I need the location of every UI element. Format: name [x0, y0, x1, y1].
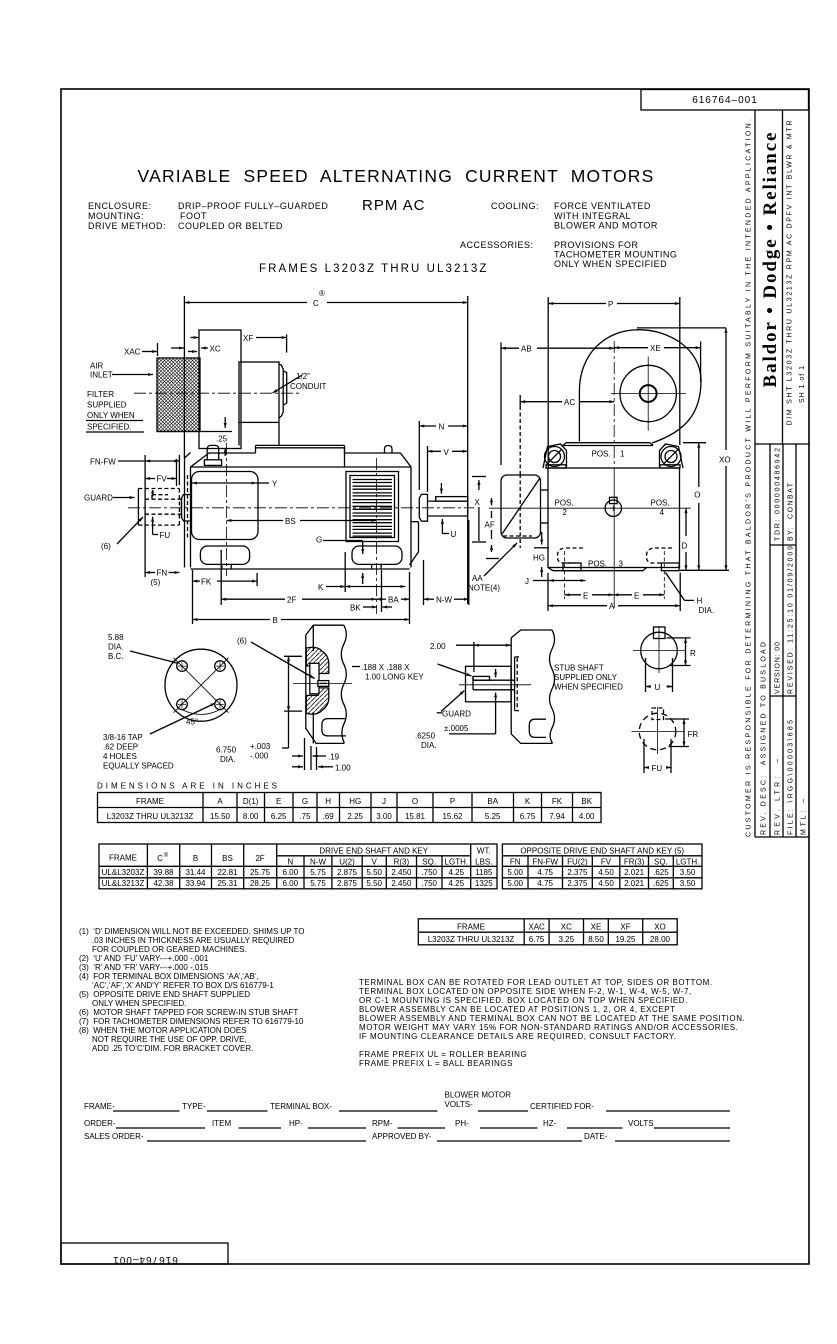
svg-text:2.375: 2.375 [567, 868, 588, 877]
svg-text:FRAME: FRAME [136, 797, 164, 806]
svg-text:FU(2): FU(2) [567, 858, 588, 867]
svg-text:FU: FU [160, 531, 171, 540]
svg-text:.75: .75 [299, 812, 311, 821]
svg-text:FR(3): FR(3) [624, 858, 645, 867]
svg-text:TDR: 000000486942: TDR: 000000486942 [775, 448, 782, 541]
svg-text:TERMINAL BOX CAN BE ROTATED FO: TERMINAL BOX CAN BE ROTATED FOR LEAD OUT… [359, 978, 713, 987]
svg-text:E: E [634, 591, 639, 600]
svg-text:DIA.: DIA. [699, 606, 715, 615]
svg-text:SUPPLIED ONLY: SUPPLIED ONLY [554, 673, 618, 682]
svg-text:FV: FV [601, 858, 612, 867]
svg-text:ONLY WHEN SPECIFIED: ONLY WHEN SPECIFIED [554, 259, 667, 269]
svg-text:BLOWER ASSEMBLY CAN BE LOCATED: BLOWER ASSEMBLY CAN BE LOCATED AT POSITI… [359, 1005, 676, 1014]
stub shaft in guard [473, 679, 514, 681]
bearing cap [419, 494, 427, 521]
svg-text:(8) WHEN THE MOTOR APPLICATIO: (8) WHEN THE MOTOR APPLICATION DOES [79, 1026, 247, 1035]
HG dimension [541, 532, 543, 545]
svg-text:TYPE-: TYPE- [182, 1102, 206, 1111]
svg-text:FRAME: FRAME [109, 854, 137, 863]
conduit centerline [134, 392, 300, 394]
svg-text:2F: 2F [287, 596, 296, 605]
U label [441, 519, 443, 527]
notes left column [79, 927, 305, 1053]
svg-text:P: P [450, 797, 455, 806]
svg-text:.750: .750 [421, 868, 437, 877]
svg-text:LBS.: LBS. [475, 858, 492, 867]
svg-text:5.25: 5.25 [485, 812, 501, 821]
lower hatched hub [306, 688, 329, 714]
svg-text:BLOWER ASSEMBLY AND TERMINAL B: BLOWER ASSEMBLY AND TERMINAL BOX CAN NOT… [359, 1014, 745, 1023]
svg-text:XAC: XAC [528, 923, 545, 932]
1.00 dimension [316, 747, 318, 770]
svg-text:OPPOSITE DRIVE END SHAFT AND K: OPPOSITE DRIVE END SHAFT AND KEY (5) [520, 847, 684, 856]
svg-text:AC: AC [564, 398, 575, 407]
Y dimension [192, 482, 257, 484]
svg-text:U: U [451, 530, 457, 539]
feet [200, 546, 249, 564]
svg-text:31.44: 31.44 [185, 868, 206, 877]
key arrow [440, 483, 442, 494]
svg-text:FILTER: FILTER [87, 390, 114, 399]
svg-text:C: C [157, 854, 163, 863]
svg-text:WT.: WT. [477, 847, 491, 856]
svg-text:FRAME PREFIX L = BALL BEARINGS: FRAME PREFIX L = BALL BEARINGS [359, 1059, 513, 1068]
svg-text:XAC: XAC [124, 348, 141, 357]
svg-text:4.25: 4.25 [449, 868, 465, 877]
svg-text:‘AC’,‘AF’,‘X’ AND‘Y’ REFER TO: ‘AC’,‘AF’,‘X’ AND‘Y’ REFER TO BOX D/S 61… [92, 981, 274, 990]
svg-text:3.50: 3.50 [680, 879, 696, 888]
bearing bore [310, 663, 319, 694]
svg-text:2.021: 2.021 [624, 868, 645, 877]
svg-text:(5): (5) [151, 578, 161, 587]
svg-text:33.94: 33.94 [185, 879, 206, 888]
svg-text:EQUALLY SPACED: EQUALLY SPACED [103, 762, 174, 771]
XE dimension [614, 347, 648, 349]
svg-text:4.50: 4.50 [598, 868, 614, 877]
table 2 left: drive end [99, 844, 497, 889]
BS dimension [227, 520, 284, 522]
svg-text:6.00: 6.00 [283, 879, 299, 888]
svg-text:DRIP–PROOF FULLY–GUARDED: DRIP–PROOF FULLY–GUARDED [178, 201, 328, 211]
svg-text:SUPPLIED: SUPPLIED [87, 401, 127, 410]
svg-text:POS.: POS. [588, 560, 607, 569]
svg-text:R: R [690, 649, 696, 658]
D dimension [685, 508, 687, 536]
detail centerline [293, 682, 352, 684]
svg-text:.625: .625 [653, 868, 669, 877]
svg-text:AA: AA [472, 574, 483, 583]
svg-text:ONLY WHEN SPECIFIED.: ONLY WHEN SPECIFIED. [92, 999, 186, 1008]
svg-text:TACHOMETER MOUNTING: TACHOMETER MOUNTING [554, 250, 677, 260]
svg-text:FRAME PREFIX UL = ROLLER BEARI: FRAME PREFIX UL = ROLLER BEARING [359, 1050, 527, 1059]
AF dimension [491, 498, 493, 506]
svg-text:G: G [302, 797, 308, 806]
svg-text:BK: BK [350, 604, 361, 613]
svg-text:SQ.: SQ. [422, 858, 436, 867]
svg-text:FU: FU [652, 764, 663, 773]
svg-text:N: N [439, 423, 445, 432]
svg-text:6.750: 6.750 [216, 746, 237, 755]
svg-text:IF MOUNTING CLEARANCE DETAILS: IF MOUNTING CLEARANCE DETAILS ARE REQUIR… [359, 1032, 677, 1041]
svg-text:B: B [273, 616, 278, 625]
svg-text:22.81: 22.81 [217, 868, 238, 877]
svg-text:.750: .750 [421, 879, 437, 888]
svg-text:FOR COUPLED OR GEARED MACHINES: FOR COUPLED OR GEARED MACHINES. [92, 945, 247, 954]
svg-text:L3203Z THRU UL3213Z: L3203Z THRU UL3213Z [428, 935, 515, 944]
svg-text:(1) ‘D’ DIMENSION WILL NOT BE: (1) ‘D’ DIMENSION WILL NOT BE EXCEEDED. … [79, 927, 305, 936]
opposite shaft end view (dashed) [639, 713, 676, 750]
svg-text:4.75: 4.75 [537, 879, 553, 888]
svg-text:XE: XE [650, 344, 661, 353]
svg-text:N-W: N-W [310, 858, 326, 867]
svg-text:.25: .25 [216, 435, 228, 444]
svg-text:3: 3 [619, 560, 624, 569]
svg-text:4: 4 [660, 508, 665, 517]
svg-text:HG: HG [349, 797, 361, 806]
svg-text:J: J [525, 577, 529, 586]
left lifting lug [543, 444, 567, 468]
svg-text:39.88: 39.88 [153, 868, 174, 877]
svg-text:(6) MOTOR SHAFT TAPPED FOR SC: (6) MOTOR SHAFT TAPPED FOR SCREW-IN STUB… [79, 1008, 298, 1017]
XC dimension [171, 347, 184, 349]
svg-text:.69: .69 [323, 812, 335, 821]
svg-text:5.00: 5.00 [507, 868, 523, 877]
svg-text:5.75: 5.75 [310, 868, 326, 877]
svg-text:XC: XC [561, 923, 572, 932]
motor body square [548, 468, 680, 568]
svg-text:J: J [382, 797, 386, 806]
svg-text:45°: 45° [186, 718, 198, 727]
svg-text:2.875: 2.875 [337, 879, 358, 888]
FV dimension [145, 478, 155, 480]
svg-text:(3) ‘R’ AND ‘FR’ VARY---+.000: (3) ‘R’ AND ‘FR’ VARY---+.000 -.015 [79, 963, 209, 972]
.6250 dim arrows [495, 669, 497, 677]
svg-text:BLOWER AND MOTOR: BLOWER AND MOTOR [554, 221, 658, 231]
table 2 right: opposite drive end [502, 844, 702, 889]
X dimension [478, 480, 480, 490]
bolt circle detail [165, 649, 237, 721]
svg-text:.625: .625 [653, 879, 669, 888]
terminal/conduit box [239, 362, 279, 422]
guard (dashed box) [137, 489, 139, 526]
svg-text:DIM SHT L3203Z THRU UL3213Z RP: DIM SHT L3203Z THRU UL3213Z RPM AC DPFV … [787, 121, 794, 426]
svg-text:2.00: 2.00 [430, 642, 446, 651]
svg-text:GUARD: GUARD [84, 494, 113, 503]
svg-text:RPM-: RPM- [372, 1119, 393, 1128]
GUARD label [437, 712, 442, 714]
svg-text:VOLTS-: VOLTS- [445, 1100, 474, 1109]
svg-text:B.C.: B.C. [108, 652, 124, 661]
placeholder groups [84, 289, 517, 625]
svg-text:2.450: 2.450 [391, 868, 412, 877]
svg-text:RPM AC: RPM AC [362, 197, 426, 214]
svg-text:19.25: 19.25 [615, 935, 636, 944]
svg-text:O: O [412, 797, 418, 806]
svg-text:AB: AB [521, 345, 532, 354]
feet dashed right [647, 548, 673, 563]
svg-text:CONDUIT: CONDUIT [290, 382, 327, 391]
svg-text:3.00: 3.00 [376, 812, 392, 821]
left bearing cap [182, 495, 191, 522]
2F dimension [221, 598, 285, 600]
svg-text:GUARD: GUARD [442, 710, 471, 719]
svg-text:WITH INTEGRAL: WITH INTEGRAL [554, 211, 631, 221]
svg-text:E: E [276, 797, 281, 806]
svg-text:28.00: 28.00 [650, 935, 671, 944]
svg-text:1.00: 1.00 [335, 763, 351, 772]
svg-text:HP-: HP- [289, 1119, 303, 1128]
left bracket face lines [184, 458, 186, 568]
drive end bracket lower lip [411, 521, 419, 523]
svg-text:5.00: 5.00 [507, 879, 523, 888]
svg-text:FN-FW: FN-FW [90, 458, 116, 467]
tachometer box [501, 475, 541, 538]
svg-text:4.50: 4.50 [598, 879, 614, 888]
svg-text:DIA.: DIA. [220, 755, 236, 764]
svg-text:42.38: 42.38 [153, 879, 174, 888]
svg-text:15.62: 15.62 [442, 812, 463, 821]
blower impeller circles [620, 365, 676, 421]
svg-text:HG: HG [533, 554, 545, 563]
svg-text:.03 INCHES IN THICKNESS ARE US: .03 INCHES IN THICKNESS ARE USUALLY REQU… [92, 936, 295, 945]
svg-text:2.021: 2.021 [624, 879, 645, 888]
svg-text:FORCE VENTILATED: FORCE VENTILATED [554, 201, 651, 211]
table 1: frame dimensions [98, 793, 602, 823]
air filter (crosshatched) [157, 358, 200, 432]
guard box [466, 666, 512, 702]
svg-text:BA: BA [388, 596, 399, 605]
svg-text:K: K [525, 797, 531, 806]
svg-text:FK: FK [552, 797, 563, 806]
FU arrows [152, 490, 154, 497]
svg-text:(6): (6) [237, 637, 247, 646]
svg-text:DATE-: DATE- [584, 1132, 608, 1141]
svg-text:6.00: 6.00 [283, 868, 299, 877]
svg-text:FR: FR [688, 730, 699, 739]
svg-text:POS.: POS. [592, 450, 611, 459]
svg-text:G: G [316, 536, 322, 545]
svg-text:COOLING:: COOLING: [491, 201, 539, 211]
shaft end section detail [306, 625, 344, 635]
svg-text:LGTH.: LGTH. [445, 858, 469, 867]
drawing border frame [61, 89, 809, 1264]
XO dimension [725, 328, 727, 450]
svg-text:A: A [609, 602, 615, 611]
svg-text:CERTIFIED FOR-: CERTIFIED FOR- [530, 1102, 594, 1111]
.19 dimension [304, 738, 306, 770]
6.750 DIA dimension [288, 656, 290, 711]
stub shaft detail bracket [511, 630, 552, 638]
A dimension [548, 605, 607, 607]
tach center dashed [519, 474, 521, 548]
svg-text:DIMENSIONS ARE IN INCHES: DIMENSIONS ARE IN INCHES [97, 782, 277, 791]
svg-text:U(2): U(2) [339, 858, 355, 867]
svg-text:V: V [372, 858, 378, 867]
shaft [428, 500, 468, 502]
svg-text:COUPLED OR BELTED: COUPLED OR BELTED [178, 221, 283, 231]
svg-text:XC: XC [210, 345, 221, 354]
svg-text:UL&L3203Z: UL&L3203Z [102, 868, 145, 877]
svg-text:P: P [608, 300, 613, 309]
svg-text:SPECIFIED.: SPECIFIED. [87, 423, 131, 432]
svg-text:8.00: 8.00 [243, 812, 259, 821]
svg-text:6.75: 6.75 [529, 935, 545, 944]
svg-text:L3203Z THRU UL3213Z: L3203Z THRU UL3213Z [107, 812, 194, 821]
svg-text:FK: FK [201, 578, 212, 587]
svg-text:Baldor • Dodge • Reliance: Baldor • Dodge • Reliance [760, 133, 781, 388]
top id box [641, 90, 809, 111]
svg-text:®: ® [319, 289, 325, 298]
B dimension [193, 619, 271, 621]
svg-text:4.00: 4.00 [579, 812, 595, 821]
svg-text:.188 X .188 X: .188 X .188 X [361, 663, 410, 672]
svg-text:D(1): D(1) [243, 797, 259, 806]
svg-text:2.875: 2.875 [337, 868, 358, 877]
svg-text:HZ-: HZ- [543, 1119, 557, 1128]
svg-text:AIR: AIR [90, 362, 104, 371]
blower base plate [566, 442, 650, 444]
rev table [769, 444, 771, 837]
svg-text:N: N [287, 858, 293, 867]
svg-text:PROVISIONS FOR: PROVISIONS FOR [554, 240, 639, 250]
svg-text:PH-: PH- [455, 1119, 469, 1128]
left section centerline [226, 443, 228, 576]
svg-text:7.94: 7.94 [549, 812, 565, 821]
svg-text:XO: XO [719, 456, 731, 465]
center hub [605, 500, 621, 516]
AB dimension [501, 347, 519, 349]
XF dimension [191, 337, 200, 339]
svg-text:(6): (6) [101, 542, 111, 551]
svg-text:O: O [694, 491, 700, 500]
svg-text:+.003: +.003 [250, 742, 271, 751]
center bore [318, 681, 329, 687]
svg-text:TERMINAL BOX-: TERMINAL BOX- [270, 1102, 332, 1111]
svg-text:POS.: POS. [651, 499, 670, 508]
svg-text:2.25: 2.25 [347, 812, 363, 821]
svg-text:XO: XO [654, 923, 666, 932]
svg-text:R(3): R(3) [394, 858, 410, 867]
svg-text:4 HOLES: 4 HOLES [103, 752, 137, 761]
FK dimension [193, 580, 258, 582]
right section stud [385, 446, 393, 454]
svg-text:8.50: 8.50 [588, 935, 604, 944]
notes right column [359, 978, 745, 1068]
svg-text:SQ.: SQ. [654, 858, 668, 867]
svg-text:WHEN SPECIFIED: WHEN SPECIFIED [554, 683, 623, 692]
svg-text:4.75: 4.75 [537, 868, 553, 877]
svg-text:BS: BS [222, 854, 233, 863]
svg-text:1325: 1325 [475, 879, 493, 888]
svg-text:POS.: POS. [555, 499, 574, 508]
svg-text:TERMINAL BOX LOCATED ON OPPOSI: TERMINAL BOX LOCATED ON OPPOSITE SIDE WH… [359, 987, 692, 996]
svg-text:SALES ORDER-: SALES ORDER- [84, 1132, 144, 1141]
V dimension [428, 450, 468, 452]
svg-text:5.88: 5.88 [108, 633, 124, 642]
svg-text:V: V [444, 448, 450, 457]
svg-text:AF: AF [485, 521, 495, 530]
svg-text:.6250: .6250 [415, 732, 436, 741]
C dimension [184, 302, 307, 304]
svg-text:DRIVE METHOD:: DRIVE METHOD: [88, 221, 166, 231]
right lifting lug [660, 444, 684, 468]
svg-text:616764–001: 616764–001 [112, 1254, 178, 1265]
svg-text:BLOWER MOTOR: BLOWER MOTOR [445, 1091, 512, 1100]
N dimension [419, 425, 467, 427]
svg-text:616764–001: 616764–001 [692, 95, 758, 106]
svg-text:25.31: 25.31 [217, 879, 238, 888]
svg-text:NOTE(4): NOTE(4) [468, 584, 500, 593]
svg-text:XE: XE [591, 923, 602, 932]
svg-text:INLET: INLET [90, 371, 113, 380]
main horizontal centerline [128, 507, 474, 509]
brush cap stud [204, 460, 221, 466]
P dimension [548, 303, 606, 305]
svg-text:28.25: 28.25 [250, 879, 271, 888]
svg-text:FN-FW: FN-FW [532, 858, 558, 867]
svg-text:FN: FN [157, 569, 168, 578]
svg-text:FV: FV [157, 475, 168, 484]
svg-text:NOT REQUIRE THE USE OF OPP. DR: NOT REQUIRE THE USE OF OPP. DRIVE, [92, 1035, 247, 1044]
horizontal centerline [489, 507, 691, 509]
svg-text:FRAME-: FRAME- [84, 1102, 115, 1111]
svg-text:2.375: 2.375 [567, 879, 588, 888]
svg-text:D: D [682, 542, 688, 551]
svg-text:2F: 2F [255, 854, 264, 863]
svg-text:FOOT: FOOT [180, 211, 207, 221]
svg-text:4.25: 4.25 [449, 879, 465, 888]
svg-text:DRIVE END SHAFT AND KEY: DRIVE END SHAFT AND KEY [319, 847, 428, 856]
svg-text:3.25: 3.25 [559, 935, 575, 944]
blower adapter housing [199, 330, 241, 449]
svg-text:1/2”: 1/2” [296, 372, 310, 381]
AC dimension [520, 401, 562, 403]
svg-text:FN: FN [510, 858, 521, 867]
svg-text:(2) ‘U’ AND ‘FU’ VARY---+.000: (2) ‘U’ AND ‘FU’ VARY---+.000 -.001 [79, 954, 209, 963]
svg-text:BY: CONBAT: BY: CONBAT [788, 482, 795, 541]
svg-text:5.50: 5.50 [366, 879, 382, 888]
block outline [754, 110, 756, 837]
H DIA label [666, 573, 685, 601]
svg-text:N-W: N-W [436, 596, 452, 605]
motor body outline [191, 448, 412, 568]
svg-text:MOTOR WEIGHT MAY VARY 15% FOR: MOTOR WEIGHT MAY VARY 15% FOR NON-STANDA… [359, 1023, 738, 1032]
svg-text:BA: BA [487, 797, 498, 806]
svg-text:.62 DEEP: .62 DEEP [103, 743, 138, 752]
svg-text:MOUNTING:: MOUNTING: [88, 211, 144, 221]
svg-text:VERSION: 00: VERSION: 00 [775, 642, 782, 694]
svg-text:3/8-16 TAP: 3/8-16 TAP [103, 733, 143, 742]
svg-text:3.50: 3.50 [680, 868, 696, 877]
O dimension [698, 443, 700, 487]
svg-text:6.25: 6.25 [271, 812, 287, 821]
svg-text:6.75: 6.75 [520, 812, 536, 821]
svg-text:K: K [318, 583, 324, 592]
svg-text:-.000: -.000 [250, 752, 269, 761]
lower slot [322, 719, 346, 736]
bottom-left id box [61, 1243, 228, 1264]
commutator end cover [192, 472, 259, 540]
key leader [438, 664, 472, 676]
svg-text:(4) FOR TERMINAL BOX DIMENSIO: (4) FOR TERMINAL BOX DIMENSIONS ‘AA’,‘AB… [79, 972, 259, 981]
.25 dimension [224, 417, 226, 428]
svg-text:(7) FOR TACHOMETER DIMENSIONS: (7) FOR TACHOMETER DIMENSIONS REFER TO 6… [79, 1017, 304, 1026]
feet dashed left [558, 548, 584, 563]
svg-text:ADD .25 TO‘C’DIM. FOR BRACKET: ADD .25 TO‘C’DIM. FOR BRACKET COVER. [92, 1044, 253, 1053]
svg-text:15.81: 15.81 [405, 812, 426, 821]
svg-text:X: X [475, 498, 481, 507]
svg-text:UL&L3213Z: UL&L3213Z [102, 879, 145, 888]
